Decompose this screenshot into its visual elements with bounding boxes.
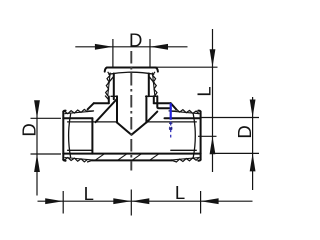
right face bottom chamfer arc bbox=[198, 160, 200, 161]
top branch left thread zigzag bbox=[106, 72, 110, 96]
left D dimension line bbox=[36, 101, 38, 196]
top branch left chamfer arc bbox=[105, 68, 107, 72]
top branch chamfer second line bbox=[109, 72, 154, 74]
right V corner diagonal bbox=[147, 112, 158, 123]
left inner thread-end edge bbox=[91, 118, 93, 153]
right L dimension line bbox=[212, 29, 214, 172]
right D bottom extension line bbox=[213, 152, 259, 154]
bottom left extension line bbox=[62, 191, 64, 214]
right D dimension line bbox=[252, 97, 254, 190]
top D dimension line bbox=[75, 46, 187, 48]
top D left extension line bbox=[112, 39, 114, 67]
svg-text:D: D bbox=[234, 125, 255, 138]
top D right arrow bbox=[150, 44, 168, 50]
left face chamfer second line bbox=[69, 114, 71, 157]
right D top arrow bbox=[250, 100, 256, 118]
left D bottom arrow bbox=[34, 154, 40, 172]
top branch left thread root line bbox=[108, 73, 110, 96]
right inner relief wall bbox=[157, 96, 171, 108]
right bottom minor line bbox=[171, 149, 197, 151]
left face bottom chamfer arc bbox=[63, 160, 65, 161]
top branch right chamfer arc bbox=[156, 68, 158, 72]
hatch tick bottom 4 bbox=[150, 154, 160, 161]
top branch left outer wall bbox=[108, 97, 110, 104]
svg-text:L: L bbox=[194, 86, 215, 96]
bottom mid-left arrow bbox=[113, 198, 131, 204]
hatch tick bottom 1 bbox=[95, 154, 105, 161]
svg-text:D: D bbox=[19, 123, 40, 136]
left internal cone diagonal bbox=[96, 99, 117, 122]
bottom middle extension line bbox=[130, 190, 132, 216]
body bore top left line bbox=[63, 117, 92, 119]
top D right extension line bbox=[149, 39, 151, 67]
right L bottom arrow bbox=[210, 136, 216, 154]
bottom far-left arrow bbox=[45, 198, 63, 204]
bottom far-right arrow bbox=[201, 198, 219, 204]
left outlet top thread zigzag bbox=[65, 109, 88, 113]
branch left minor wall bbox=[116, 96, 118, 122]
left outlet root line stub bbox=[88, 110, 94, 112]
blue selected edge solid part bbox=[170, 103, 172, 120]
right outlet top thread root line bbox=[170, 111, 199, 114]
left D top arrow bbox=[34, 100, 40, 118]
branch right minor wall bbox=[145, 96, 147, 122]
svg-text:L: L bbox=[175, 182, 185, 203]
right D bottom arrow bbox=[250, 153, 256, 171]
blue selected edge dash part bbox=[170, 122, 172, 138]
right face chamfer second line bbox=[193, 114, 195, 157]
left end face bbox=[62, 112, 64, 160]
top branch end face bbox=[107, 67, 156, 69]
left outlet top thread root line bbox=[65, 111, 94, 114]
left outlet bottom thread root line bbox=[65, 158, 94, 161]
left thread minor line bbox=[68, 121, 117, 123]
hatch tick bottom 3 bbox=[132, 154, 142, 161]
branch bore V funnel bbox=[117, 122, 147, 134]
left D bottom extension line bbox=[31, 153, 62, 155]
blue edge tick 1 bbox=[169, 122, 172, 124]
body bore bottom line bbox=[63, 153, 200, 155]
left outlet bottom runout bbox=[88, 160, 92, 162]
body bottom outer line bbox=[92, 159, 172, 161]
left face top chamfer arc bbox=[63, 111, 65, 112]
blue edge star tick bbox=[169, 127, 173, 130]
svg-text:D: D bbox=[129, 29, 142, 50]
bottom right extension line bbox=[200, 191, 202, 214]
right end face bbox=[200, 112, 202, 160]
branch right thread step bbox=[146, 95, 158, 97]
top branch right thread root line bbox=[152, 73, 154, 96]
right outlet top thread zigzag bbox=[176, 109, 199, 114]
right thread minor line bbox=[146, 121, 196, 123]
right outlet bottom runout bbox=[172, 160, 176, 162]
bottom dimension line bbox=[38, 200, 253, 202]
left outlet bottom thread zigzag bbox=[65, 158, 88, 162]
hub top right segment bbox=[154, 102, 171, 104]
top branch left bore wall bbox=[113, 74, 115, 100]
vertical centerline bbox=[130, 51, 132, 171]
right D top extension line bbox=[201, 117, 259, 119]
right L bottom extension line bbox=[198, 135, 217, 137]
body bore top right line bbox=[165, 117, 201, 119]
right outlet root line stub bbox=[169, 110, 176, 112]
top branch left thread runout bbox=[105, 96, 108, 100]
hatch tick bottom 2 bbox=[118, 154, 128, 161]
left hub runout diagonal bbox=[88, 103, 94, 109]
right face top chamfer arc bbox=[198, 111, 200, 112]
right outlet bottom thread root line bbox=[170, 158, 199, 161]
right L top arrow bbox=[210, 49, 216, 67]
top branch left inner chamfer bbox=[108, 76, 114, 83]
top branch right outer wall bbox=[153, 96, 155, 103]
branch left thread step bbox=[111, 95, 117, 97]
top D left arrow bbox=[95, 44, 113, 50]
bottom mid-right arrow bbox=[131, 198, 149, 204]
right hub runout diagonal bbox=[171, 103, 177, 109]
top branch right bore wall bbox=[148, 74, 150, 97]
right L top extension line bbox=[156, 66, 218, 68]
left D top extension line bbox=[31, 117, 62, 119]
top branch right inner chamfer bbox=[149, 76, 155, 83]
top branch right thread zigzag bbox=[153, 72, 157, 96]
right outlet bottom thread zigzag bbox=[176, 157, 199, 162]
left bottom minor line bbox=[68, 149, 93, 151]
svg-text:L: L bbox=[84, 183, 94, 204]
hub top left segment bbox=[94, 102, 109, 104]
